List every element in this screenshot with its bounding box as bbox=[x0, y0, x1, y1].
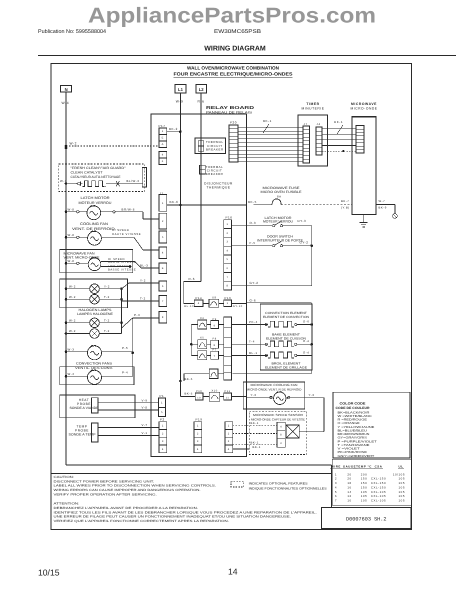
svg-text:WIRE: WIRE bbox=[331, 465, 341, 469]
microwave box bbox=[352, 117, 376, 215]
harness J4 to microwave DE-1 bbox=[322, 128, 356, 130]
svg-text:O-4: O-4 bbox=[303, 350, 309, 354]
svg-text:4: 4 bbox=[198, 302, 200, 305]
optional features legend bbox=[231, 482, 244, 487]
svg-text:3: 3 bbox=[162, 440, 164, 443]
svg-text:105: 105 bbox=[399, 499, 405, 503]
svg-text:2: 2 bbox=[162, 220, 164, 223]
svg-text:14: 14 bbox=[228, 567, 238, 577]
svg-text:BL-10: BL-10 bbox=[184, 305, 194, 308]
svg-text:105: 105 bbox=[361, 499, 367, 503]
svg-text:N: N bbox=[65, 87, 68, 92]
wire G-6 to element box bbox=[247, 302, 312, 304]
svg-text:BREAKER: BREAKER bbox=[206, 147, 224, 151]
svg-text:MICRO OVEN FUSIBLE: MICRO OVEN FUSIBLE bbox=[261, 190, 302, 194]
microwave connector bbox=[356, 126, 364, 154]
neutral bus wire from N bbox=[65, 92, 67, 465]
svg-text:4: 4 bbox=[197, 448, 199, 451]
wire V-9 bbox=[98, 402, 159, 404]
svg-text:LATCH MOTOR: LATCH MOTOR bbox=[81, 196, 111, 200]
svg-text:W-8: W-8 bbox=[68, 259, 75, 263]
svg-text:3: 3 bbox=[280, 442, 282, 445]
svg-text:BASSE VITESSE: BASSE VITESSE bbox=[108, 268, 136, 271]
svg-text:BK-2: BK-2 bbox=[169, 127, 178, 131]
svg-text:O-4: O-4 bbox=[303, 339, 309, 343]
svg-text:Y-3: Y-3 bbox=[309, 393, 315, 397]
terminal L2 bbox=[196, 85, 207, 93]
svg-text:W-4: W-4 bbox=[68, 372, 75, 376]
svg-text:INDICATES OPTIONAL FEATURES: INDICATES OPTIONAL FEATURES bbox=[249, 482, 308, 486]
svg-text:DE-1: DE-1 bbox=[334, 120, 343, 124]
svg-text:MICRO-ONDE CAPTEUR DE VITESSE: MICRO-ONDE CAPTEUR DE VITESSE bbox=[251, 417, 305, 421]
svg-text:CODE DE COULEUR: CODE DE COULEUR bbox=[336, 406, 371, 410]
svg-text:W-3: W-3 bbox=[60, 179, 67, 183]
harness P20 to timer J7 bbox=[238, 126, 303, 128]
svg-text:4: 4 bbox=[228, 448, 230, 451]
svg-text:7: 7 bbox=[214, 355, 216, 358]
wire V-8 bbox=[98, 409, 159, 411]
wire GY-2 return bbox=[231, 285, 311, 287]
svg-text:BREAKER: BREAKER bbox=[206, 172, 224, 176]
svg-text:THERMIQUE: THERMIQUE bbox=[206, 185, 230, 189]
convection fan 2 box bbox=[60, 367, 134, 385]
thermal circuit breaker CB1 bbox=[195, 138, 226, 154]
thermal circuit breaker CB2 bbox=[200, 165, 206, 174]
svg-text:W-3: W-3 bbox=[68, 347, 75, 351]
svg-text:4: 4 bbox=[162, 252, 164, 255]
diagram outer border bbox=[51, 64, 412, 530]
svg-text:BL-3: BL-3 bbox=[140, 263, 148, 267]
svg-text:GN/Y=GREEN/VERT: GN/Y=GREEN/VERT bbox=[338, 454, 375, 458]
convection fan 1 bbox=[65, 351, 68, 354]
speed sensor connector bbox=[277, 422, 285, 430]
svg-text:X5: X5 bbox=[200, 337, 204, 340]
svg-text:W-7: W-7 bbox=[379, 199, 386, 203]
svg-text:GY-2: GY-2 bbox=[250, 281, 259, 285]
svg-text:Y-2: Y-2 bbox=[140, 279, 146, 283]
svg-text:RELAY BOARD: RELAY BOARD bbox=[206, 105, 254, 110]
svg-text:V-8: V-8 bbox=[142, 406, 148, 410]
svg-text:P16: P16 bbox=[226, 215, 233, 219]
svg-text:W-2: W-2 bbox=[69, 318, 76, 322]
svg-text:4: 4 bbox=[162, 154, 164, 157]
svg-text:CXL-105: CXL-105 bbox=[371, 499, 386, 503]
svg-text:EW30MC65PSB: EW30MC65PSB bbox=[214, 29, 261, 35]
svg-text:2: 2 bbox=[162, 432, 164, 435]
svg-text:ELEMENT DE CUISSON: ELEMENT DE CUISSON bbox=[266, 337, 306, 341]
wire gauge table bbox=[332, 459, 411, 505]
svg-text:(Y.B): (Y.B) bbox=[341, 205, 350, 209]
svg-text:5: 5 bbox=[161, 411, 163, 414]
color code box bbox=[333, 392, 410, 458]
oven lamp 2 bbox=[65, 298, 68, 301]
svg-text:1: 1 bbox=[197, 425, 199, 428]
svg-text:W-2: W-2 bbox=[69, 329, 76, 333]
caution box bbox=[51, 472, 332, 474]
wire W-2 to P17-A bbox=[66, 145, 159, 147]
svg-text:BK-1: BK-1 bbox=[253, 445, 261, 449]
oven lamp 1 bbox=[65, 287, 68, 290]
svg-text:INDIQUE FONCTIONNALITES OPTION: INDIQUE FONCTIONNALITES OPTIONNELLES bbox=[249, 486, 327, 490]
svg-text:P19: P19 bbox=[196, 417, 203, 421]
svg-text:BK-6: BK-6 bbox=[170, 200, 179, 204]
svg-text:UL: UL bbox=[399, 465, 404, 469]
microwave ground lead bbox=[363, 215, 365, 223]
svg-text:V-1: V-1 bbox=[142, 431, 148, 435]
svg-text:F-5: F-5 bbox=[250, 241, 256, 245]
convection fan 2 bbox=[65, 375, 68, 378]
svg-text:10/15: 10/15 bbox=[38, 568, 60, 578]
svg-text:2: 2 bbox=[228, 432, 230, 435]
svg-text:FOUR ENCASTRE ELECTRIQUE/MICRO: FOUR ENCASTRE ELECTRIQUE/MICRO-ONDES bbox=[174, 72, 293, 77]
svg-text:MINUTERIE: MINUTERIE bbox=[301, 107, 324, 111]
svg-text:P2: P2 bbox=[160, 417, 165, 421]
svg-text:Publication No: 5995588004: Publication No: 5995588004 bbox=[38, 29, 106, 35]
svg-text:GY-2: GY-2 bbox=[300, 241, 309, 245]
element return wire bbox=[311, 303, 313, 374]
L2 bus jog bbox=[184, 280, 201, 282]
svg-text:8A: 8A bbox=[277, 194, 282, 198]
microwave speed sensor box (optional) bbox=[249, 411, 306, 454]
svg-text:5: 5 bbox=[162, 236, 164, 239]
svg-text:MICRO-ONDE VENT. R DE REFROID: MICRO-ONDE VENT. R DE REFROID bbox=[247, 388, 303, 392]
svg-text:W-4: W-4 bbox=[62, 101, 70, 105]
svg-text:BK-5: BK-5 bbox=[248, 200, 257, 204]
svg-text:GAUGE: GAUGE bbox=[343, 465, 356, 469]
fresh clean catalyst box (optional) bbox=[59, 164, 145, 192]
svg-text:AppliancePartsPros.com: AppliancePartsPros.com bbox=[88, 4, 376, 28]
svg-text:1: 1 bbox=[227, 223, 229, 226]
svg-text:BK-5: BK-5 bbox=[185, 377, 193, 381]
svg-text:1: 1 bbox=[228, 425, 230, 428]
svg-text:1: 1 bbox=[227, 302, 229, 305]
svg-text:W-8: W-8 bbox=[68, 207, 75, 211]
svg-text:E: E bbox=[162, 267, 164, 270]
wires BK-1 to speed sensor bbox=[233, 425, 277, 427]
svg-text:D0007603 SH.2: D0007603 SH.2 bbox=[346, 516, 386, 522]
svg-text:L1: L1 bbox=[178, 87, 184, 92]
svg-text:X10: X10 bbox=[212, 389, 218, 392]
svg-text:P1: P1 bbox=[160, 394, 165, 398]
svg-text:2: 2 bbox=[197, 432, 199, 435]
relay contact X2 row BL-1 bbox=[198, 351, 207, 360]
svg-text:CATALYSEUR AUTO-NETTOYAGE: CATALYSEUR AUTO-NETTOYAGE bbox=[71, 175, 121, 179]
microwave chassis wire W-7 bbox=[376, 204, 395, 206]
catalyst heater element bbox=[65, 182, 68, 185]
svg-text:VERIFY PROPER OPERATION AFTER: VERIFY PROPER OPERATION AFTER SERVICING. bbox=[54, 492, 157, 496]
svg-text:TEMP °C: TEMP °C bbox=[356, 465, 372, 469]
svg-text:BK-5: BK-5 bbox=[185, 392, 193, 396]
svg-text:4: 4 bbox=[280, 425, 282, 428]
drawing number box bbox=[322, 508, 411, 529]
svg-text:3: 3 bbox=[197, 440, 199, 443]
relay board outline bbox=[151, 114, 247, 457]
microwave fan box bbox=[60, 250, 133, 273]
wire BK-2 bbox=[167, 131, 181, 133]
svg-text:V-7: V-7 bbox=[142, 423, 148, 427]
terminal L1 bbox=[175, 85, 186, 93]
svg-text:T-2: T-2 bbox=[140, 297, 146, 301]
svg-text:T-2: T-2 bbox=[104, 329, 110, 333]
svg-text:P-5: P-5 bbox=[122, 346, 128, 350]
L1 bus wire bbox=[179, 93, 181, 381]
svg-text:ELEMENT DE GRILLAGE: ELEMENT DE GRILLAGE bbox=[265, 366, 307, 370]
svg-text:X3: X3 bbox=[200, 317, 204, 320]
terminal N bbox=[61, 86, 72, 92]
svg-text:VENT. DE REFROID.: VENT. DE REFROID. bbox=[72, 227, 116, 231]
relay output connector strip bbox=[224, 317, 232, 380]
svg-text:8: 8 bbox=[162, 316, 164, 319]
timer box bbox=[298, 115, 328, 166]
latch loop right wire bbox=[311, 226, 313, 286]
svg-text:8: 8 bbox=[280, 434, 282, 437]
microwave fan motor bbox=[65, 262, 68, 265]
svg-text:1: 1 bbox=[161, 402, 163, 405]
svg-text:P14: P14 bbox=[196, 296, 203, 300]
header rule bbox=[38, 54, 456, 56]
svg-text:E: E bbox=[162, 137, 164, 140]
bake element bbox=[265, 343, 267, 345]
svg-text:WIRING DIAGRAM: WIRING DIAGRAM bbox=[204, 46, 266, 53]
connector P18 bbox=[225, 422, 233, 430]
svg-text:10: 10 bbox=[347, 499, 351, 503]
svg-text:5: 5 bbox=[227, 258, 229, 261]
svg-text:3: 3 bbox=[227, 241, 229, 244]
svg-text:Y-2: Y-2 bbox=[104, 284, 110, 288]
svg-text:10: 10 bbox=[197, 396, 201, 399]
svg-text:G-6: G-6 bbox=[250, 298, 257, 302]
svg-text:1: 1 bbox=[162, 425, 164, 428]
relay row X10 to cooling fan bbox=[179, 381, 181, 397]
svg-text:MOTEUR VERROU: MOTEUR VERROU bbox=[79, 201, 112, 205]
svg-text:MICROWAVE COOLING FAN: MICROWAVE COOLING FAN bbox=[251, 383, 298, 387]
svg-text:P-4: P-4 bbox=[122, 371, 128, 375]
svg-text:MICRO-ONDE: MICRO-ONDE bbox=[350, 107, 377, 111]
speed sensor element bbox=[286, 425, 299, 438]
relay contacts column bbox=[190, 325, 192, 356]
lamp return bus bbox=[121, 289, 123, 334]
svg-text:J4: J4 bbox=[317, 122, 321, 126]
wire P-3 to relay bbox=[122, 318, 133, 328]
svg-text:MICROWAVE: MICROWAVE bbox=[351, 102, 377, 106]
oven elements box bbox=[260, 304, 312, 370]
svg-text:VERIFIEZ QUE L'APPAREIL FONCTI: VERIFIEZ QUE L'APPAREIL FONCTIONNE CORRE… bbox=[54, 519, 230, 523]
svg-text:8: 8 bbox=[227, 285, 229, 288]
wire to speed sensor bbox=[323, 398, 325, 432]
svg-text:T-2: T-2 bbox=[104, 295, 110, 299]
svg-text:CSA: CSA bbox=[375, 465, 383, 469]
svg-text:BK-7: BK-7 bbox=[341, 199, 349, 203]
svg-text:P20: P20 bbox=[230, 121, 237, 125]
svg-text:6: 6 bbox=[227, 267, 229, 270]
halogen lamp 2 bbox=[65, 332, 68, 335]
wire W-2 junction bbox=[65, 147, 68, 150]
svg-text:7: 7 bbox=[162, 300, 164, 303]
svg-text:6: 6 bbox=[162, 160, 164, 163]
svg-text:P-3: P-3 bbox=[134, 313, 140, 317]
svg-text:6: 6 bbox=[162, 285, 164, 288]
svg-text:GY-10: GY-10 bbox=[233, 305, 243, 308]
svg-text:1: 1 bbox=[162, 202, 164, 205]
svg-text:COOLING FAN: COOLING FAN bbox=[80, 222, 109, 226]
svg-text:T-4: T-4 bbox=[249, 340, 255, 344]
svg-text:P13: P13 bbox=[225, 296, 232, 300]
svg-text:W-8: W-8 bbox=[68, 233, 75, 237]
svg-text:R-6: R-6 bbox=[189, 277, 195, 281]
svg-text:4: 4 bbox=[162, 448, 164, 451]
svg-text:BK-1: BK-1 bbox=[251, 440, 259, 444]
svg-text:P17: P17 bbox=[159, 124, 166, 128]
svg-text:O-3: O-3 bbox=[250, 221, 257, 225]
svg-text:A: A bbox=[162, 143, 164, 146]
svg-text:W-2: W-2 bbox=[69, 284, 76, 288]
wire F-5 door switch bbox=[231, 245, 272, 247]
svg-text:W-9: W-9 bbox=[176, 100, 184, 104]
svg-text:T-2: T-2 bbox=[104, 318, 110, 322]
svg-text:7: 7 bbox=[335, 499, 337, 503]
svg-text:9: 9 bbox=[214, 324, 216, 327]
broil element bbox=[265, 354, 267, 356]
svg-text:LAMPES HALOGENE: LAMPES HALOGENE bbox=[77, 312, 114, 316]
svg-text:BL/W-3: BL/W-3 bbox=[127, 179, 140, 183]
wire V-7 bbox=[98, 427, 159, 429]
microwave cooling fan box bbox=[243, 382, 305, 409]
svg-text:BL-1: BL-1 bbox=[249, 351, 258, 355]
wire V-1 bbox=[98, 435, 159, 437]
relay contact X1 row bbox=[209, 369, 218, 379]
svg-text:WALL OVEN/MICROWAVE COMBINATIO: WALL OVEN/MICROWAVE COMBINATION bbox=[187, 65, 280, 70]
svg-text:W-2: W-2 bbox=[69, 295, 76, 299]
svg-text:4: 4 bbox=[227, 249, 229, 252]
svg-text:11: 11 bbox=[226, 396, 230, 399]
svg-text:PK-4: PK-4 bbox=[249, 320, 258, 324]
svg-text:X9: X9 bbox=[212, 295, 217, 299]
svg-text:8: 8 bbox=[214, 344, 216, 347]
svg-text:J7: J7 bbox=[304, 122, 308, 126]
heat probe box bbox=[60, 395, 135, 418]
svg-text:V-9: V-9 bbox=[142, 398, 148, 402]
svg-text:DY-3: DY-3 bbox=[298, 219, 307, 223]
svg-text:PANNEAU DE RELAIS: PANNEAU DE RELAIS bbox=[206, 111, 253, 115]
svg-text:BK-1: BK-1 bbox=[251, 421, 259, 425]
oven lamps box bbox=[60, 279, 128, 308]
svg-text:L2: L2 bbox=[199, 87, 205, 92]
svg-text:SONDE A VIANDE: SONDE A VIANDE bbox=[70, 406, 99, 410]
svg-text:O-6: O-6 bbox=[303, 319, 309, 323]
svg-text:1: 1 bbox=[162, 130, 164, 133]
convection element bbox=[265, 323, 267, 325]
wire BK-6 / BK-5 microwave feed bbox=[167, 204, 181, 206]
svg-text:2: 2 bbox=[227, 232, 229, 235]
svg-text:BK-9: BK-9 bbox=[379, 205, 387, 209]
halogen lamp 1 bbox=[65, 322, 68, 325]
svg-text:7: 7 bbox=[227, 276, 229, 279]
svg-text:TIMER: TIMER bbox=[306, 102, 319, 106]
svg-text:Y-3: Y-3 bbox=[251, 393, 257, 397]
wire O-3 latch motor bbox=[231, 225, 272, 227]
svg-text:3: 3 bbox=[228, 440, 230, 443]
svg-text:HAUTE VITESSE: HAUTE VITESSE bbox=[112, 232, 141, 236]
svg-text:W-2: W-2 bbox=[70, 142, 77, 146]
L2 bus wire bbox=[200, 93, 202, 282]
svg-text:BK-1: BK-1 bbox=[263, 119, 272, 123]
svg-text:BR/W-8: BR/W-8 bbox=[122, 207, 135, 211]
